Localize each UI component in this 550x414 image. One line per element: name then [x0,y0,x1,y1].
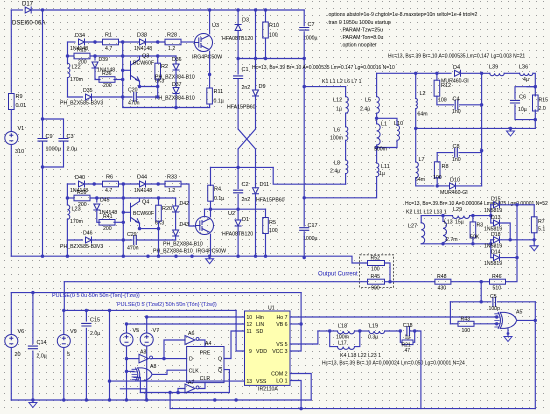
wire R3 bottom [472,238,474,244]
wire row 167 [211,166,274,168]
svg-text:L2: L2 [420,91,426,97]
wire L5 top [376,73,378,96]
D flip-flop A4 [187,347,224,383]
svg-text:2.7m: 2.7m [446,237,458,243]
svg-text:200: 200 [103,83,112,89]
wire L12-L6 [345,113,347,127]
junction [31,291,34,294]
inverter A3 [139,354,149,363]
svg-text:Q3: Q3 [142,54,149,60]
wire row2 b [90,55,176,57]
wire C6 top loop [515,87,535,99]
junction [208,73,211,76]
resistor R36 [99,77,115,83]
svg-text:D15: D15 [491,197,501,203]
wire V9 bottom [63,348,65,401]
diode D45 [94,204,100,210]
wire L10 bottom loop [377,140,397,147]
wire crossing 2 [238,129,255,149]
wire D10 row a [437,185,449,187]
svg-text:V9: V9 [70,329,77,335]
junction [471,214,474,217]
wire LIN row [127,323,245,325]
capacitor C2 [234,190,243,193]
wire C18 right [410,330,415,332]
svg-text:R48: R48 [437,274,447,280]
wire K2 bottom b [443,243,491,245]
svg-text:PH_BZX884-B10: PH_BZX884-B10 [163,242,203,248]
wire L12 top [345,87,347,97]
inductor L29 [453,216,470,219]
svg-text:2.4µ: 2.4µ [330,169,340,175]
inductor L22 [68,63,70,77]
wire row209 to U2 [204,209,206,217]
junction [157,255,160,258]
wire D1 top [237,209,239,220]
wire U2 collector [210,209,212,217]
wire D1 bottom [237,226,239,256]
svg-text:D9: D9 [259,84,266,90]
resistor R9 [9,94,15,110]
svg-text:12: 12 [247,322,253,328]
inductor L8 [346,160,348,174]
wire Q4 base lead [123,211,130,213]
junction [162,357,165,360]
resistor R11 [207,88,213,104]
diode D42 [173,206,179,212]
resistor R2 [155,63,161,79]
svg-text:R7: R7 [538,219,545,225]
wire L13 bottom [442,243,444,244]
junction [146,255,149,258]
resistor R1 [103,39,119,45]
wire V6 top [10,293,12,335]
junction [509,127,512,130]
diode D15 [494,202,500,208]
wire R5 top [265,209,267,217]
svg-text:L22: L22 [72,65,81,71]
svg-text:470n: 470n [128,101,140,107]
wire D36 col top [175,56,177,64]
capacitor C20 [134,93,137,102]
wire top rail left of D17 [11,9,22,11]
svg-text:C15: C15 [90,318,100,324]
inductor L5 [377,97,380,114]
svg-text:100: 100 [269,228,278,234]
wire C2 top [237,167,239,188]
wire row 73 a [377,72,416,74]
svg-text:VCC 3: VCC 3 [272,349,287,355]
wire upper block left col a [67,42,69,63]
wire row2 a [68,55,75,57]
junction [471,242,474,245]
svg-text:K1 L1 L2 L6 L7 1: K1 L1 L2 L6 L7 1 [322,79,362,85]
junction [66,196,69,199]
svg-text:4µ: 4µ [523,77,529,83]
wire L1 bottom [376,145,378,163]
junction [328,329,331,332]
wire feedback to supply row [63,282,65,311]
svg-text:D1: D1 [242,217,249,223]
svg-text:L11: L11 [381,164,390,170]
svg-text:A3: A3 [140,350,146,356]
wire L11 to C column [304,177,376,198]
svg-text:D42: D42 [180,201,190,207]
wire COM down [290,374,311,401]
wire C14 top [32,293,34,344]
junction [121,54,124,57]
wire V7 bottom [146,346,148,400]
svg-text:C17: C17 [308,223,318,229]
svg-text:D44: D44 [137,175,147,181]
wire L17 right loop [355,331,360,347]
inductor L12 [346,97,349,114]
inductor L11 [377,163,379,177]
wire R15 bottom [534,110,536,128]
wire riser to A6 [164,340,185,359]
svg-text:V7: V7 [153,328,160,334]
svg-text:170m: 170m [70,77,83,83]
svg-text:1N5819: 1N5819 [484,208,502,214]
svg-text:U1: U1 [268,306,275,312]
wire D39 to R36 [95,68,100,80]
resistor R43 [458,321,474,326]
wire R43 drop [449,302,451,324]
junction [303,196,306,199]
svg-text:0.01: 0.01 [16,103,27,109]
capacitor C18 [407,327,410,336]
svg-text:5.1: 5.1 [538,227,545,233]
wire C9/C3 top row [43,119,64,138]
junction [66,54,69,57]
resistor R48 [435,279,451,284]
junction [93,40,96,43]
svg-text:1000µ: 1000µ [46,147,62,153]
transistor Q3 [131,59,140,81]
inductor L18 [338,331,355,334]
wire Qbar return left [140,392,170,394]
wire cross down a [237,149,239,167]
svg-text:1µ: 1µ [336,107,342,113]
wire D43 bottom [175,236,177,240]
junction [399,329,402,332]
wire LO down [290,381,301,409]
svg-text:K4 L18 L22 L23 1: K4 L18 L22 L23 1 [340,353,381,359]
diode D13 [494,220,500,226]
wire R9 to V1 [10,110,12,132]
svg-text:47: 47 [405,348,411,354]
junction [236,208,239,211]
svg-text:1000µ: 1000µ [303,236,318,242]
svg-text:L19: L19 [369,324,378,330]
diode D39 [92,62,98,68]
svg-text:R15: R15 [539,98,549,104]
wire D36-D37 [175,70,177,88]
junction [208,8,211,11]
svg-text:PH_BZX585-B3V3: PH_BZX585-B3V3 [60,244,103,250]
wire V5 bottom [126,346,128,400]
svg-text:13: 13 [247,379,253,385]
diode D3 [235,25,241,31]
wire R2 top [157,56,159,63]
wire Ho to A5 [290,316,497,318]
svg-text:10µ: 10µ [518,107,527,113]
inductor L36 [520,73,533,75]
wire R20 to block rail [158,229,160,240]
wire lower mid col [122,184,124,240]
capacitor C6 [511,100,520,103]
svg-text:R12: R12 [441,83,451,89]
wire Q4 collector [139,198,141,201]
svg-text:C20: C20 [128,88,138,94]
XOR gate A5 input stubs [495,314,500,327]
wire K4 row b [360,330,369,332]
svg-text:VB 6: VB 6 [276,322,287,328]
wire D11 to rail [255,194,257,256]
svg-text:PULSE(0 5 0u 50n 50n {Ton} {Tz: PULSE(0 5 0u 50n 50n {Ton} {Tzw}) [52,293,140,299]
svg-text:0.1µ: 0.1µ [214,196,224,202]
svg-text:100: 100 [438,98,447,104]
svg-text:Hc=13, Bs=.39 Br=.10 A=0.00053: Hc=13, Bs=.39 Br=.10 A=0.000535 Lm=0.147… [252,65,395,71]
svg-text:L8: L8 [334,161,340,167]
inductor L19 [369,331,385,334]
junction [299,322,302,325]
svg-text:BCW60F: BCW60F [133,211,154,217]
junction [108,398,111,401]
wire block rail97 c [137,96,158,98]
junction [122,238,125,241]
svg-text:C14: C14 [37,340,47,346]
voltage source V1 [5,131,18,144]
wire D42 top [175,198,177,206]
junction [121,95,124,98]
svg-text:PH_BZX884-B10: PH_BZX884-B10 [155,96,195,102]
wire D9 to crossing [255,96,257,129]
wire C8 row b [459,152,482,154]
wire R20 bottom [158,221,160,228]
svg-text:L6: L6 [334,128,340,134]
resistor R15 [533,95,539,111]
diode D14 [494,255,500,261]
diode D11 [253,188,259,194]
svg-text:IRG4PC50W: IRG4PC50W [192,55,222,61]
svg-text:R41: R41 [103,214,113,220]
voltage source V5 [120,333,133,346]
junction [303,256,306,259]
svg-text:D40: D40 [75,175,85,181]
svg-text:900: 900 [371,286,380,292]
svg-text:64m: 64m [415,177,425,183]
wire Q3 emitter row [140,81,158,86]
wire row 73 c [437,72,451,74]
wire C15 bottom [85,328,87,400]
wire VS to K4 row [290,331,318,344]
junction [66,255,69,258]
resistor R3 [470,222,476,238]
junction [495,315,498,318]
wire L7 bottom [416,178,434,186]
resistor R46 [490,279,506,284]
junction [41,165,44,168]
wire D15 anode [491,204,493,206]
svg-text:D: D [189,357,193,363]
svg-text:C3: C3 [67,134,74,140]
diode D43 [173,230,179,236]
svg-text:170m: 170m [70,219,83,225]
svg-text:U2: U2 [228,211,235,217]
diode D37 [173,88,179,94]
svg-text:100p: 100p [489,306,501,312]
wire row1 c [119,41,140,43]
svg-text:VDD: VDD [256,349,267,355]
svg-text:R43: R43 [461,317,471,323]
junction [138,85,141,88]
wire R3 top [472,216,474,222]
wire bridge anode riser top [490,205,492,223]
resistor R33 [165,181,181,187]
wire main bottom rail [11,256,366,263]
svg-text:.options abstol=1e-9 chgtol=1e: .options abstol=1e-9 chgtol=1e-8 maxstep… [327,12,478,18]
svg-text:V6: V6 [18,329,25,335]
resistor R52 [368,261,385,266]
svg-text:VS 5: VS 5 [276,342,287,348]
svg-text:PRE: PRE [200,351,211,357]
wire block rail97 a [68,96,83,98]
svg-text:100: 100 [462,328,471,334]
inductor L7 [416,162,419,178]
resistor R4 [208,185,214,201]
wire R12 to C4 [437,96,454,105]
resistor R8 [434,162,440,178]
svg-text:15µ: 15µ [455,220,464,226]
wire A8 out to CLK [152,370,187,374]
wire C6 bottom loop [515,105,535,120]
svg-text:D3: D3 [242,18,249,24]
ground R7 [530,246,538,251]
wire A5 gnd stem [507,328,509,336]
svg-text:D43: D43 [180,222,190,228]
wire V1 to bottom rail [10,145,12,257]
svg-text:L39: L39 [489,65,498,71]
IGBT U2 [196,217,214,235]
junction [254,8,257,11]
wire row 209 [205,208,266,210]
wire A3 out to D [152,358,187,360]
svg-text:VSS: VSS [256,379,267,385]
junction [157,227,160,230]
svg-text:20: 20 [15,352,21,358]
svg-text:C1: C1 [242,67,249,73]
wire to transformer primary bottom [273,167,345,184]
wire D45 to R41 [97,210,100,222]
wire lower rail240 b [92,239,133,241]
svg-text:470n: 470n [127,246,139,252]
junction [108,309,111,312]
svg-text:0.3µ: 0.3µ [368,335,378,341]
wire C17 to rail [303,232,305,258]
wire VDD col [236,310,244,351]
junction [122,255,125,258]
svg-text:C6: C6 [519,95,526,101]
inductor L39 [490,73,504,75]
junction [534,118,537,121]
junction [209,208,212,211]
diode D1 [235,220,241,226]
wire into R43 [450,323,458,325]
svg-text:1µ: 1µ [379,171,385,177]
svg-text:C7: C7 [308,22,315,28]
wire R10 bottom [265,38,267,59]
wire A5 col down [534,302,536,409]
svg-text:R5: R5 [269,220,276,226]
junction [208,255,211,258]
resistor R45 [368,279,385,284]
svg-text:1000µ: 1000µ [303,36,318,42]
wire L6-L8 [345,140,347,160]
wire to A3 input [127,358,140,360]
svg-text:1N5819: 1N5819 [484,261,502,267]
svg-text:R45: R45 [371,274,381,280]
svg-text:SD: SD [256,329,263,335]
wire Q to SD [224,331,245,359]
svg-text:Q: Q [218,357,222,363]
wire C1 down [237,80,239,130]
svg-text:10: 10 [247,315,253,321]
junction [41,117,44,120]
wire block rail97 b [92,96,133,98]
svg-text:2.0µ: 2.0µ [67,147,79,153]
wire K4 return down [415,331,421,409]
junction [480,300,483,303]
svg-text:R20: R20 [162,206,172,212]
inductor L1 [377,124,381,145]
wire lower row1 c [119,183,140,185]
wire crossing 1 [238,129,255,149]
wire supply col to VCC [290,293,301,351]
capacitor C29 [134,236,137,245]
svg-text:Hin: Hin [256,315,264,321]
wire R20 top [158,198,160,205]
wire C7 to C17 column [303,32,305,226]
svg-text:L23: L23 [72,207,81,213]
svg-text:V1: V1 [18,126,25,132]
wire D9 col top [255,10,257,59]
svg-text:IR2110A: IR2110A [258,387,278,393]
svg-text:LIN: LIN [256,322,264,328]
wire bottom gnd stem [32,400,34,403]
junction [436,184,439,187]
wire D10 row b [456,185,482,187]
junction [534,85,537,88]
wire lower rail240 a [67,239,82,241]
junction [156,95,159,98]
voltage source V6 [5,334,18,347]
wire R15 top [534,87,536,96]
svg-text:Ho 7: Ho 7 [277,315,288,321]
diode D4 [455,70,461,76]
wire C2 bottom [237,195,239,210]
wire top rail [31,9,304,11]
junction [41,8,44,11]
diode D35 [86,94,92,100]
wire L13 top [442,216,444,222]
wire segment near A7 [120,389,146,400]
wire R52 to R45 [385,263,391,282]
wire ground stem [209,256,211,259]
wire feedback row mid [385,281,435,283]
wire C14 bottom [32,351,34,400]
svg-text:R9: R9 [16,94,23,100]
